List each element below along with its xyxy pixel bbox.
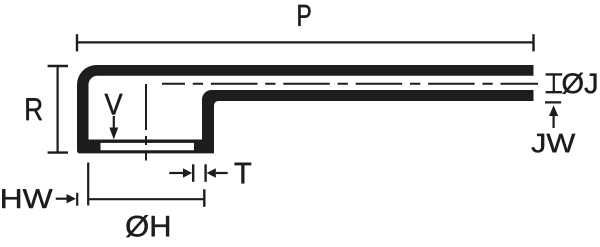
R bottom tick — [48, 151, 68, 153]
JW arrow — [549, 105, 558, 116]
label HW — [2, 189, 52, 208]
label JW — [532, 134, 576, 153]
vertical centerline — [145, 84, 147, 161]
label P — [298, 5, 310, 26]
T right tick — [204, 164, 206, 182]
R top tick — [48, 65, 68, 67]
OH extension line — [87, 163, 89, 206]
horizontal centerline — [162, 83, 538, 85]
P right tick — [532, 34, 534, 51]
T left arrow — [169, 172, 184, 174]
HW arrow — [56, 198, 67, 200]
V arrow — [113, 116, 115, 128]
label OJ — [563, 73, 597, 94]
OH dimension line — [88, 198, 204, 200]
OJ bottom tick — [546, 91, 563, 93]
label V — [105, 94, 123, 115]
T left tick — [192, 164, 194, 182]
P dimension line — [77, 41, 534, 43]
R dimension line — [56, 66, 58, 153]
handle cross-section outline — [77, 65, 534, 153]
OJ dimension line — [553, 74, 555, 92]
HW tick — [76, 193, 78, 206]
label T — [235, 163, 252, 184]
JW reference line — [545, 101, 561, 103]
OJ top tick — [546, 73, 563, 75]
OH right tick — [203, 189, 205, 207]
P left tick — [76, 34, 78, 51]
T right arrow — [216, 172, 228, 174]
label R — [26, 98, 42, 120]
label OH — [126, 215, 169, 237]
